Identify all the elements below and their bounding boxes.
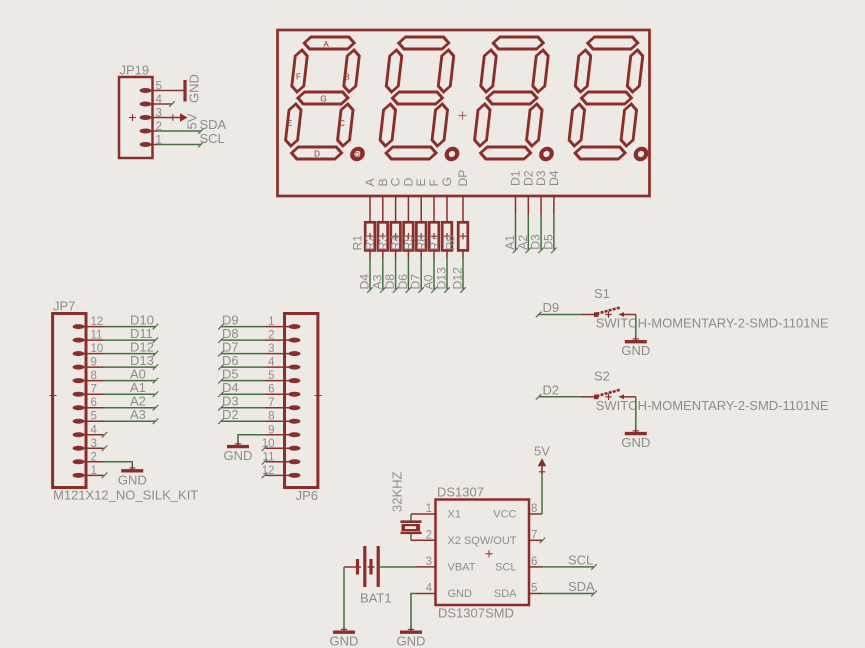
connector JP19 [119, 63, 153, 159]
display pin names A-DP [363, 170, 470, 187]
net D6 wire below R4 [396, 250, 411, 292]
svg-text:E: E [287, 119, 292, 128]
svg-text:1: 1 [268, 316, 274, 328]
JP6 pin 10 [262, 438, 301, 451]
svg-text:4: 4 [426, 583, 433, 595]
svg-text:11: 11 [91, 330, 103, 342]
ground GND (S1) [621, 336, 650, 359]
svg-text:D12: D12 [451, 267, 465, 290]
net D9 wire to S1 [536, 300, 595, 317]
DS1307 pin 6 (SCL) [495, 556, 542, 574]
svg-text:8: 8 [91, 370, 97, 382]
svg-text:R8: R8 [443, 235, 457, 251]
JP6 pin 9 [266, 424, 301, 437]
wire S2 to GND [624, 397, 636, 431]
net D3 (JP6 pin 7) [218, 393, 265, 410]
svg-text:D4: D4 [547, 170, 561, 186]
ground GND (S2) [621, 428, 650, 451]
DS1307 pin 3 (VBAT) [416, 556, 476, 574]
JP7 pin 12 [73, 316, 104, 329]
svg-text:D2: D2 [543, 383, 560, 398]
net D7 (JP6 pin 3) [218, 339, 265, 356]
net D9 (JP6 pin 1) [218, 312, 265, 329]
wire X1 to crystal [411, 514, 416, 521]
svg-text:SWITCH-MOMENTARY-2-SMD-1101NE: SWITCH-MOMENTARY-2-SMD-1101NE [596, 316, 829, 331]
JP6 pin 5 [266, 370, 301, 383]
JP6 pin 10 stub end [262, 445, 268, 451]
svg-text:GND: GND [621, 435, 650, 450]
svg-text:SCL: SCL [495, 561, 516, 573]
display digit 4 segments [567, 37, 660, 159]
svg-text:D2: D2 [222, 407, 239, 422]
svg-text:3: 3 [91, 438, 97, 450]
net A2 wire from display [516, 196, 531, 253]
JP7 pin 10 [73, 343, 104, 356]
wire JP19 pin5 to GND [146, 90, 186, 92]
supply 5V (JP19) [146, 113, 200, 129]
net SCL (DS1307 pin6) [542, 552, 597, 569]
svg-text:SDA: SDA [568, 579, 595, 594]
svg-text:5V: 5V [185, 113, 200, 129]
svg-text:3: 3 [426, 556, 432, 568]
battery BAT1 [344, 546, 392, 606]
JP7 pin 2 [73, 451, 104, 464]
svg-text:6: 6 [531, 556, 537, 568]
display pin C wire [395, 196, 397, 222]
display digit 2 segments [378, 37, 471, 159]
net SDA (JP19 pin2) [146, 117, 227, 134]
JP6 pin 11 [263, 451, 301, 464]
IC DS1307 body [436, 485, 530, 621]
DS1307 pin 5 (SDA) [494, 583, 542, 601]
wire battery to VBAT [378, 566, 416, 568]
svg-text:9: 9 [91, 357, 97, 369]
JP19 pin 2 [140, 121, 162, 134]
svg-text:C: C [339, 119, 345, 128]
supply 5V (DS1307) [534, 444, 550, 476]
svg-text:SCL: SCL [568, 552, 593, 567]
net A0 (JP7 pin 8) [104, 366, 159, 383]
svg-text:JP6: JP6 [296, 488, 318, 503]
switch S1 [594, 286, 829, 331]
net SCL (JP19 pin1) [146, 131, 225, 148]
JP7 pin 11 [73, 330, 104, 343]
crystal Q1 32KHZ [390, 471, 422, 532]
net D12 wire below R8 [451, 250, 466, 292]
JP7 pin 8 [73, 370, 104, 383]
JP6 pin 7 [266, 397, 301, 410]
svg-text:B: B [344, 73, 349, 82]
display pin D wire [407, 196, 409, 222]
JP7 pin 4 [73, 424, 104, 437]
svg-text:G: G [320, 95, 326, 104]
ground GND (JP6) [224, 441, 253, 464]
svg-text:9: 9 [268, 424, 274, 436]
display pin G wire [446, 196, 448, 222]
svg-text:A0: A0 [422, 274, 436, 289]
svg-text:DS1307: DS1307 [437, 485, 484, 500]
resistor R8 [443, 222, 468, 250]
svg-text:5: 5 [268, 370, 274, 382]
svg-text:GND: GND [118, 472, 147, 487]
display pin DP wire [462, 196, 464, 222]
JP7 pin 3 [73, 438, 104, 451]
svg-text:1: 1 [91, 465, 97, 477]
svg-text:4: 4 [268, 357, 275, 369]
JP6 pin 2 [266, 330, 301, 343]
svg-text:JP7: JP7 [53, 299, 75, 314]
svg-text:7: 7 [91, 384, 97, 396]
resistor R4 [389, 222, 414, 250]
JP7 pin 1 [73, 465, 104, 478]
svg-text:5: 5 [531, 583, 537, 595]
DS1307 pin 1 (X1) [416, 503, 461, 521]
display pin A wire [369, 196, 371, 222]
JP6 pin 12 [262, 465, 301, 478]
svg-text:10: 10 [91, 343, 104, 355]
JP7 pin 4 stub end [102, 432, 108, 438]
svg-text:2: 2 [268, 330, 274, 342]
DS1307 pin 2 (X2) [416, 529, 461, 547]
net D13 wire below R7 [435, 250, 450, 292]
net D8 wire below R3 [383, 250, 398, 292]
net D4 wire below R1 [358, 250, 373, 292]
svg-text:4: 4 [91, 424, 98, 436]
JP6 pin 1 [266, 316, 301, 329]
resistor R7 [427, 222, 452, 250]
svg-text:SWITCH-MOMENTARY-2-SMD-1101NE: SWITCH-MOMENTARY-2-SMD-1101NE [596, 398, 829, 413]
svg-text:GND: GND [621, 343, 650, 358]
wire S1 to GND [624, 315, 636, 339]
svg-text:7: 7 [531, 529, 537, 541]
resistor R6 [414, 222, 439, 250]
DS1307 pin 7 (SQW/OUT) [464, 529, 542, 547]
wire crystal to X2 [411, 534, 416, 541]
connector JP6 [285, 314, 322, 504]
ground GND (BAT1) [330, 626, 359, 648]
svg-text:8: 8 [531, 503, 537, 515]
JP7 pin 3 stub end [102, 445, 108, 451]
JP6 pin 11 stub end [262, 459, 268, 465]
wire VCC to 5V [541, 472, 543, 514]
net A3 wire below R2 [370, 250, 385, 292]
JP7 pin 5 [73, 411, 104, 424]
net D7 wire below R5 [409, 250, 424, 292]
svg-text:VBAT: VBAT [448, 561, 476, 573]
JP19 pin 4 [140, 94, 163, 107]
JP6 pin 6 [266, 384, 301, 397]
svg-text:X2: X2 [448, 535, 461, 547]
display part origin cross [459, 112, 467, 120]
svg-text:5V: 5V [534, 444, 550, 459]
svg-text:R6: R6 [414, 235, 428, 251]
svg-text:6: 6 [268, 384, 274, 396]
net A2 (JP7 pin 6) [104, 393, 159, 410]
svg-text:F: F [296, 73, 301, 82]
net D10 (JP7 pin 12) [104, 312, 159, 329]
svg-text:D: D [314, 150, 320, 159]
display U1 4-digit 7-segment body [278, 30, 650, 196]
net D5 (JP6 pin 5) [218, 366, 265, 383]
resistor R1 [350, 222, 375, 250]
resistor R2 [363, 222, 388, 250]
net A3 (JP7 pin 5) [104, 407, 159, 424]
display digit 3 segments [472, 37, 565, 159]
JP19 pin 5 [140, 80, 162, 93]
svg-text:SQW/OUT: SQW/OUT [464, 535, 517, 547]
switch S2 [594, 368, 829, 413]
net A1 (JP7 pin 7) [104, 380, 159, 397]
net D5 wire from display [541, 196, 556, 253]
svg-text:S1: S1 [594, 286, 610, 301]
svg-text:BAT1: BAT1 [360, 591, 392, 606]
JP19 pin4 stub [146, 101, 175, 107]
svg-text:DS1307SMD: DS1307SMD [438, 606, 514, 621]
svg-text:D13: D13 [435, 267, 449, 290]
JP6 pin 12 stub end [262, 473, 268, 479]
display digit 1 segment letters [287, 40, 364, 159]
JP19 pin 3 [140, 107, 162, 120]
svg-text:GND: GND [397, 634, 426, 648]
svg-text:5: 5 [91, 411, 97, 423]
svg-text:DP: DP [456, 170, 470, 187]
ground GND (JP19) [185, 74, 202, 103]
svg-text:2: 2 [91, 451, 97, 463]
net D4 (JP6 pin 6) [218, 380, 265, 397]
display digit 1 segments [283, 37, 376, 159]
wire battery to GND [343, 567, 345, 629]
JP7 pin 1 stub end [102, 473, 108, 479]
resistor R3 [376, 222, 401, 250]
svg-text:SCL: SCL [200, 131, 225, 146]
JP6 pin 3 [266, 343, 301, 356]
svg-text:X1: X1 [448, 509, 461, 521]
svg-text:GND: GND [187, 74, 202, 103]
JP6 pin 8 [266, 411, 301, 424]
svg-text:GND: GND [224, 448, 253, 463]
net D13 (JP7 pin 9) [104, 353, 159, 370]
svg-text:SDA: SDA [494, 588, 517, 600]
net D12 (JP7 pin 10) [104, 339, 159, 356]
JP7 pin 6 [73, 397, 104, 410]
svg-text:GND: GND [330, 634, 359, 648]
svg-text:M121X12_NO_SILK_KIT: M121X12_NO_SILK_KIT [53, 488, 198, 503]
svg-text:A: A [323, 40, 329, 49]
svg-text:10: 10 [262, 438, 275, 450]
wire JP6 pin9 to GND [238, 435, 266, 444]
net D2 (JP6 pin 8) [218, 407, 265, 424]
svg-text:D9: D9 [543, 300, 560, 315]
svg-text:7: 7 [268, 397, 274, 409]
svg-text:8: 8 [268, 411, 274, 423]
DS1307 pin 8 (VCC) [493, 503, 542, 521]
DS1307 pin7 stub end [540, 538, 546, 544]
svg-text:SDA: SDA [200, 117, 227, 132]
JP19 pin 1 [140, 134, 162, 147]
wire JP7 pin2 to GND [104, 462, 133, 468]
svg-text:1: 1 [426, 503, 432, 515]
svg-text:S2: S2 [594, 368, 610, 383]
svg-text:2: 2 [426, 529, 432, 541]
svg-text:GND: GND [448, 588, 473, 600]
svg-text:A3: A3 [130, 407, 146, 422]
svg-text:D5: D5 [541, 234, 555, 250]
net D2 wire to S2 [536, 383, 595, 400]
net D8 (JP6 pin 2) [218, 326, 265, 343]
svg-text:JP19: JP19 [120, 63, 150, 78]
JP7 pin 9 [73, 357, 104, 370]
resistor R5 [402, 222, 427, 250]
ground GND (DS1307) [397, 626, 426, 648]
svg-text:32KHZ: 32KHZ [390, 471, 405, 512]
svg-text:3: 3 [268, 343, 274, 355]
svg-text:VCC: VCC [493, 509, 516, 521]
net A1 wire from display [503, 196, 518, 253]
svg-text:DP: DP [355, 151, 364, 158]
display pin B wire [382, 196, 384, 222]
net D3 wire from display [529, 196, 544, 253]
display pin names D1-D4 [509, 170, 561, 186]
net A0 wire below R6 [422, 250, 437, 292]
svg-text:G: G [440, 177, 454, 186]
display pin F wire [433, 196, 435, 222]
ground GND (JP7) [118, 465, 147, 488]
wire DS1307 GND pin to GND [411, 594, 416, 630]
JP6 pin 4 [266, 357, 301, 370]
svg-text:12: 12 [262, 465, 275, 477]
net D6 (JP6 pin 4) [218, 353, 265, 370]
svg-text:12: 12 [91, 316, 104, 328]
svg-text:F: F [427, 179, 441, 186]
JP7 pin 7 [73, 384, 104, 397]
net D11 (JP7 pin 11) [104, 326, 159, 343]
svg-text:6: 6 [91, 397, 97, 409]
display pin E wire [420, 196, 422, 222]
svg-text:R7: R7 [427, 235, 441, 251]
net SDA (DS1307 pin5) [542, 579, 597, 596]
connector JP7 [50, 299, 199, 503]
DS1307 pin 4 (GND) [416, 583, 472, 601]
